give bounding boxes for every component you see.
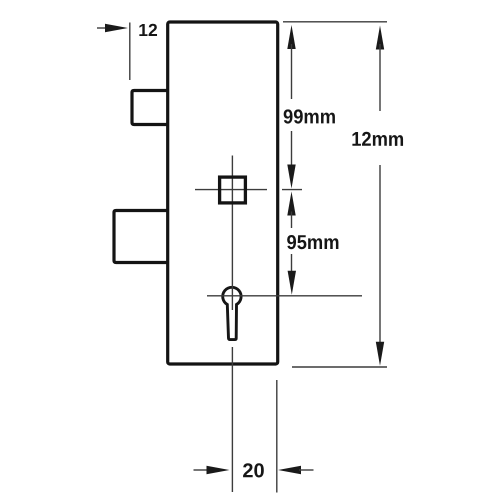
centerline horizontal at keyhole xyxy=(207,295,362,297)
latch follower (upper left protrusion) xyxy=(132,91,169,125)
dimension 99mm label xyxy=(283,106,336,128)
spindle hole (square follower) xyxy=(220,177,246,203)
dimension 20 label xyxy=(242,460,264,482)
extension line bottom right xyxy=(292,366,387,368)
dimension 12 (top left): arrow xyxy=(97,23,130,81)
dimension 12 label xyxy=(138,20,158,40)
svg-text:95mm: 95mm xyxy=(286,232,339,254)
deadbolt follower (lower left protrusion) xyxy=(114,211,169,263)
extension line top (from case top edge to right) xyxy=(283,21,387,23)
extension line bottom (right of 20 dim) xyxy=(276,380,278,493)
svg-text:12: 12 xyxy=(138,20,158,40)
centerline horizontal at spindle hole xyxy=(195,189,267,191)
keyhole (euro key slot) xyxy=(223,287,241,339)
svg-text:20: 20 xyxy=(242,460,264,482)
centerline vertical (spindle/keyhole axis) xyxy=(231,156,233,493)
dimension 12mm: line with arrows xyxy=(376,26,384,366)
dimension 99mm: line with arrows xyxy=(287,25,295,189)
dimension 95mm label xyxy=(286,232,339,254)
dimension 95mm: line with arrows xyxy=(287,192,296,295)
lock case body xyxy=(168,22,278,364)
dimension tick at spindle level xyxy=(282,189,302,191)
svg-text:99mm: 99mm xyxy=(283,106,336,128)
svg-text:12mm: 12mm xyxy=(351,129,404,151)
dimension 20 (bottom): arrows xyxy=(194,466,314,474)
dimension 12mm label xyxy=(351,129,404,151)
